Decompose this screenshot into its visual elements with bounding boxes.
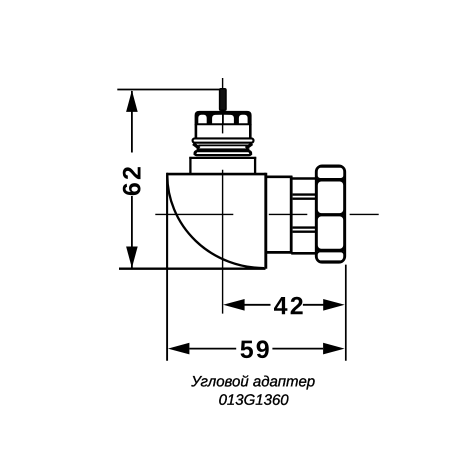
crown arch 1 [198, 115, 206, 123]
svg-text:Угловой адаптер: Угловой адаптер [190, 373, 315, 390]
outlet block bottom [266, 251, 293, 254]
thread line 4 [293, 230, 317, 232]
threaded nipple bottom [291, 252, 316, 255]
dimension 59 arrow left [168, 343, 190, 355]
crown arch 4 [239, 115, 248, 123]
dimension 59 line right segment [272, 348, 323, 350]
nut chamfer line bottom [315, 249, 346, 251]
thread line 1 [293, 193, 317, 195]
dimension 42 arrow left [223, 299, 245, 311]
dimension 59 line left segment [190, 348, 237, 350]
horizontal centerline [155, 213, 378, 215]
dimension 59 arrow right [323, 343, 345, 355]
dimension 62 line upper segment [131, 91, 133, 153]
waist taper right [246, 144, 252, 149]
dimension 62 arrow up [126, 90, 138, 112]
neck top line [189, 157, 256, 159]
waist taper left [193, 144, 199, 149]
nut chamfer line top [315, 179, 346, 181]
crown arch 2 [212, 115, 222, 124]
cap left side [195, 124, 198, 139]
cap bead pill [195, 151, 252, 155]
neck left side [189, 157, 191, 174]
svg-text:42: 42 [274, 292, 306, 320]
bead flare left [194, 151, 196, 156]
svg-text:013G1360: 013G1360 [219, 392, 290, 409]
nut bottom band corner arcs [317, 252, 344, 262]
valve pin stem [220, 89, 226, 111]
thread line 3 [293, 226, 317, 228]
extension line left (body edge) [166, 269, 168, 361]
waist line 1 [198, 144, 248, 146]
valve body quarter arc [167, 175, 264, 268]
dimension 42 arrow right [323, 299, 345, 311]
valve body outline [167, 173, 266, 269]
nut top band corner arcs [317, 167, 344, 179]
thermostat cap crown band [195, 111, 252, 125]
dimension 42 line left segment [244, 304, 271, 306]
union nut outline [316, 166, 345, 262]
extension line right (nut edge) [345, 265, 347, 361]
dimension 62 arrow down [126, 247, 138, 269]
nut face pillow upper [317, 181, 344, 215]
cap flange pill [193, 138, 254, 142]
bead flare right [249, 151, 251, 156]
outlet block top [266, 176, 293, 179]
dimension 42 line right segment [303, 304, 324, 306]
thread line 2 [293, 197, 317, 199]
nut mid line [315, 214, 346, 216]
svg-text:59: 59 [240, 336, 272, 364]
dimension 62 line lower segment [131, 196, 133, 268]
waist line 2 [197, 148, 250, 150]
crown arch 3 [224, 115, 234, 124]
nut face pillow lower [317, 215, 344, 249]
extension line top (pin top level) [117, 89, 225, 91]
outlet block right edge [290, 176, 293, 254]
cap right side [249, 124, 252, 139]
body bottom line + left extension [119, 268, 266, 270]
neck right side [254, 157, 256, 174]
vertical centerline [222, 78, 224, 314]
threaded nipple top [291, 177, 316, 180]
svg-text:62: 62 [118, 164, 146, 196]
